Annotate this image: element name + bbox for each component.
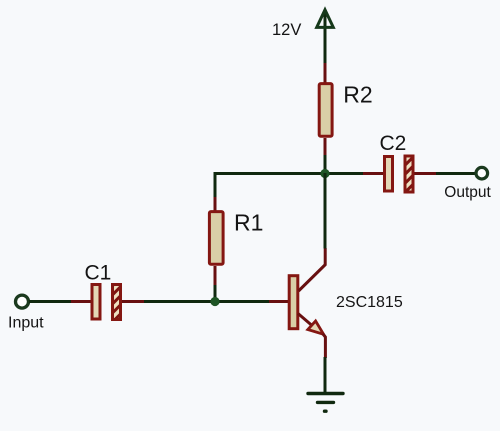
wire R1 top red pin (214, 197, 217, 211)
wire R2 bottom red pin (324, 138, 327, 156)
wire input to C1 (green) (29, 300, 72, 303)
ground (308, 394, 343, 412)
svg-text:12V: 12V (272, 21, 301, 39)
svg-text:R1: R1 (234, 210, 263, 236)
wire node to C2 (green) (325, 172, 364, 175)
wire R2 pin to node (green) (324, 155, 327, 175)
svg-text:C1: C1 (85, 261, 112, 284)
wire R1 pin to base node (green) (214, 285, 217, 302)
svg-text:2SC1815: 2SC1815 (336, 294, 403, 311)
resistor R2 (319, 84, 332, 137)
power symbol 12V arrow (317, 10, 334, 64)
wire collector to node (green) (324, 173, 327, 249)
input terminal (16, 295, 29, 308)
transistor Q1 2SC1815 (289, 265, 325, 335)
svg-text:R2: R2 (343, 82, 372, 108)
wire C1 to base node (green) (144, 300, 270, 303)
capacitor C2 (385, 156, 414, 192)
wire collector red vertical (324, 248, 327, 266)
wire C2 left red pin (363, 172, 384, 175)
wire C1 left red pin (71, 300, 92, 303)
wire R1 bottom red pin (214, 266, 217, 286)
svg-text:Output: Output (444, 184, 491, 201)
wire C1 right red pin (122, 300, 145, 303)
wire C2 right red pin (415, 172, 438, 175)
wire base red pin to Q1 (269, 300, 290, 303)
wire emitter to ground (green) (324, 357, 327, 393)
svg-text:Input: Input (8, 314, 44, 331)
node B junction dot (210, 297, 219, 306)
wire top of R1 vertical (green) (214, 172, 217, 198)
wire emitter red vertical (323, 334, 326, 358)
output terminal (476, 167, 488, 179)
svg-text:C2: C2 (380, 132, 407, 155)
wire VCC red pin to R2 (324, 63, 327, 83)
wire to output terminal (green) (436, 172, 476, 175)
wire node to R1 top (horizontal green) (215, 172, 325, 175)
node A junction dot (320, 169, 329, 178)
capacitor C1 (92, 285, 121, 320)
resistor R1 (209, 212, 223, 265)
